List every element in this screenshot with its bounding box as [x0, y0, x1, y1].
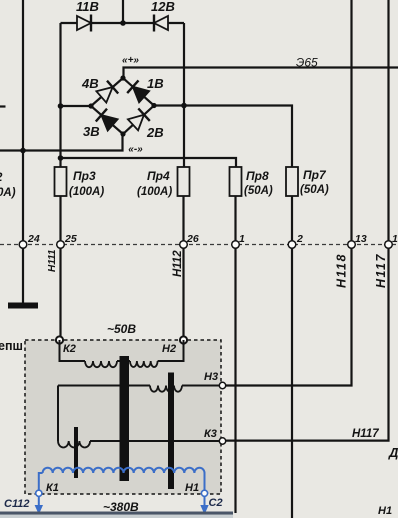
core bar right: [168, 373, 174, 490]
winding K3 row: [58, 441, 90, 448]
terminal K3: [219, 438, 225, 444]
svg-text:2В: 2В: [146, 125, 164, 140]
wire vertical from top edge to diode junction: [122, 0, 124, 23]
svg-text:Н117: Н117: [374, 253, 388, 288]
svg-text:0А): 0А): [0, 187, 16, 199]
core bar main: [120, 356, 130, 481]
svg-text:Н118: Н118: [335, 253, 349, 288]
wire minus output to left bus: [0, 134, 123, 151]
terminal 26: [180, 241, 188, 249]
wire H112 fuse Пр4 to H2: [182, 196, 184, 340]
diode 2B: [128, 108, 150, 130]
svg-text:26: 26: [186, 233, 199, 245]
svg-text:~50В: ~50В: [107, 322, 136, 336]
wire to bridge left corner: [61, 105, 92, 107]
diode 11B: [77, 15, 91, 32]
wire top diode row y=23: [61, 22, 185, 24]
terminal 1: [385, 241, 393, 249]
winding H3 row: [58, 385, 150, 387]
svg-text:Н112: Н112: [172, 250, 184, 277]
svg-text:Пр3: Пр3: [73, 169, 96, 183]
node bridge top: [120, 75, 125, 80]
fuse Пр3: [55, 167, 67, 196]
winding K2-H2: [60, 340, 86, 361]
node bridge bottom: [120, 131, 125, 136]
junction x=60.5 y=106: [58, 103, 64, 109]
svg-text:Пр7: Пр7: [303, 168, 327, 182]
svg-text:епш: епш: [0, 339, 23, 353]
junction minus/left bus: [20, 148, 26, 154]
node bridge left: [88, 103, 93, 108]
transformer Тр shielded box: [25, 340, 221, 494]
terminal 2: [288, 241, 296, 249]
terminal C112 (blue): [36, 490, 42, 496]
terminal strip dashed line: [0, 244, 398, 246]
wire bridge right corner to x=292: [154, 106, 292, 168]
svg-text:1: 1: [239, 233, 245, 245]
svg-text:К1: К1: [46, 482, 59, 494]
svg-text:С112: С112: [4, 498, 29, 510]
wire H3 row to K3 row: [57, 386, 59, 442]
terminal K2: [56, 336, 63, 343]
arrow C2: [204, 496, 206, 506]
winding K1-H1 primary (blue): [39, 473, 43, 490]
svg-text:«-»: «-»: [128, 144, 143, 155]
diode 4B: [96, 81, 118, 103]
wire H117 from top: [223, 0, 389, 441]
svg-text:(100А): (100А): [137, 186, 172, 198]
svg-text:1: 1: [392, 233, 398, 245]
svg-text:Н3: Н3: [204, 371, 218, 383]
diode 12B: [154, 15, 168, 32]
terminal 1: [232, 241, 240, 249]
core bar left: [74, 427, 78, 478]
terminal H2: [180, 336, 187, 343]
terminal C2 (blue): [201, 490, 207, 496]
svg-text:Н2: Н2: [162, 343, 176, 355]
svg-text:Э65: Э65: [296, 56, 318, 70]
wire H118 from top: [223, 0, 352, 386]
busbar bottom strip: [0, 512, 233, 515]
diode 3B: [96, 109, 118, 131]
fuse Пр4: [178, 167, 190, 196]
junction fuse bus: [58, 155, 64, 161]
terminal 25: [57, 241, 65, 249]
junction diode row: [120, 20, 126, 26]
svg-text:Пр8: Пр8: [246, 169, 269, 183]
svg-text:2: 2: [296, 233, 303, 245]
wire fuse top bus y=158: [61, 158, 237, 167]
svg-text:12В: 12В: [151, 0, 175, 14]
svg-text:Пр4: Пр4: [147, 169, 170, 183]
wire H111 fuse Пр3 to K2: [59, 196, 61, 340]
svg-text:Н111: Н111: [47, 249, 58, 272]
svg-text:К3: К3: [204, 428, 217, 440]
svg-text:(50А): (50А): [300, 184, 329, 196]
wire node2 fuse Пр7 down: [291, 196, 293, 518]
svg-text:4В: 4В: [81, 76, 99, 91]
arrow C112: [38, 496, 40, 506]
diode 1B: [127, 80, 149, 102]
fuse Пр7: [286, 167, 298, 196]
node bridge right: [151, 103, 156, 108]
rectifier bridge edges: [91, 78, 154, 134]
fuse Пр8: [230, 167, 242, 196]
wire 12B cathode drop x=184: [183, 23, 185, 167]
svg-text:Н1: Н1: [185, 482, 199, 494]
svg-text:13: 13: [355, 233, 367, 245]
svg-text:С2: С2: [209, 497, 223, 509]
svg-text:1В: 1В: [147, 76, 164, 91]
svg-text:11В: 11В: [76, 0, 99, 14]
wire stub from left edge y=107: [0, 105, 6, 107]
svg-text:Н1: Н1: [378, 505, 392, 517]
terminal H3: [219, 382, 225, 388]
svg-text:(100А): (100А): [69, 186, 104, 198]
wire left bus vertical x=23 top to ground: [22, 0, 24, 303]
wire plus output Э65: [124, 68, 398, 79]
svg-text:Д: Д: [388, 445, 398, 460]
svg-text:(50А): (50А): [244, 185, 273, 197]
wire node1 fuse Пр8 down: [234, 196, 236, 513]
terminal 13: [348, 241, 356, 249]
svg-text:«+»: «+»: [122, 55, 139, 66]
wire 11B anode drop x=60.5: [59, 23, 61, 167]
ground: [8, 303, 38, 309]
svg-text:25: 25: [64, 233, 77, 245]
terminal 24: [19, 241, 27, 249]
svg-text:24: 24: [27, 233, 40, 245]
svg-text:Н117: Н117: [352, 428, 379, 440]
junction x=184 y=105.5: [181, 103, 187, 109]
svg-text:3В: 3В: [83, 124, 100, 139]
svg-text:К2: К2: [63, 343, 76, 355]
